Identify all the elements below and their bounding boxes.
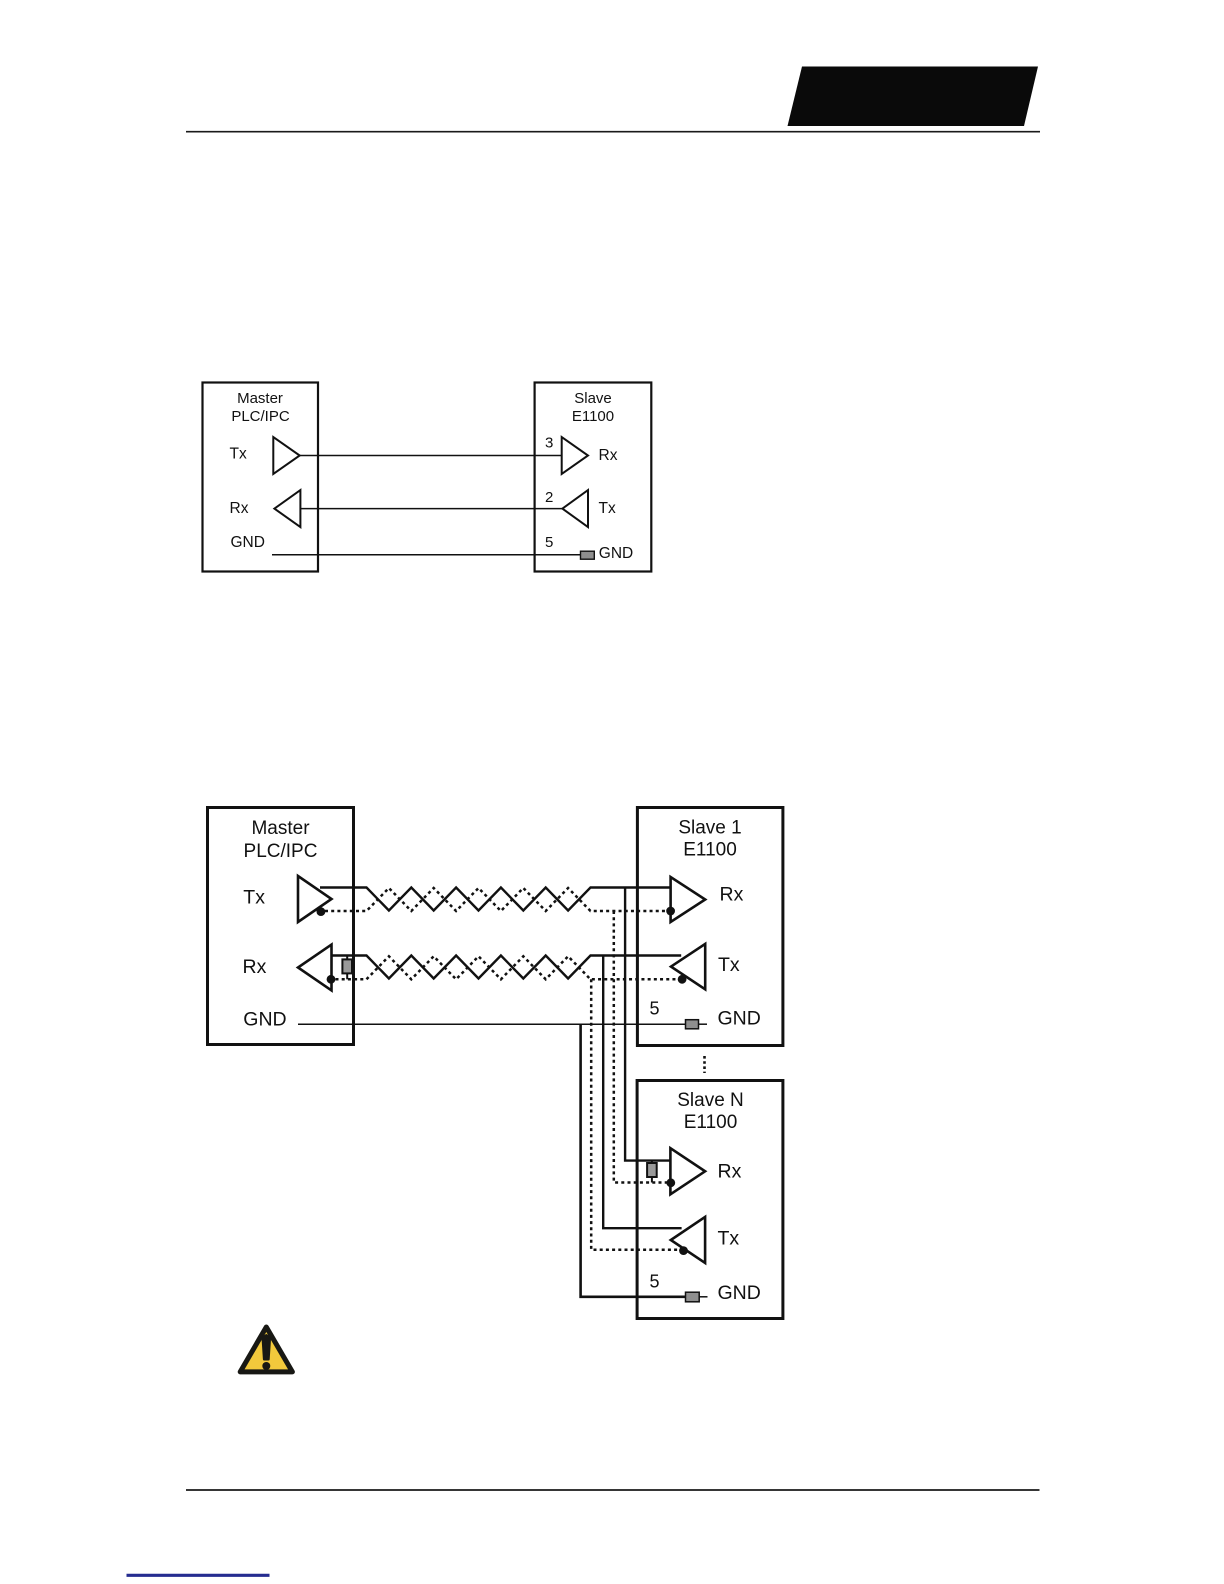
junction dot master Rx — [327, 975, 336, 984]
wire master Tx to slave Rx — [300, 455, 562, 457]
wire twisted pair solid Rx — [332, 956, 682, 979]
buffer master Rx — [298, 945, 332, 991]
box master PLC/IPC — [208, 808, 354, 1045]
wire GND pad stub slave1 — [699, 1023, 708, 1025]
svg-text:Rx: Rx — [599, 447, 618, 464]
ground pad slaveN — [686, 1292, 700, 1302]
svg-text:Slave: Slave — [574, 390, 612, 407]
wire GND master to slave — [272, 554, 581, 556]
buffer master Tx — [298, 876, 332, 922]
svg-text:5: 5 — [650, 1272, 660, 1292]
continuation dots — [703, 1056, 706, 1073]
junction dot slave1 Rx — [666, 907, 675, 916]
box slave1 E1100 — [637, 808, 783, 1046]
svg-text:E1100: E1100 — [684, 1112, 738, 1133]
svg-text:Tx: Tx — [718, 954, 740, 976]
termination resistor master Rx — [346, 956, 348, 980]
box slave E1100 — [535, 383, 652, 572]
svg-text:Master: Master — [237, 390, 283, 407]
wire twisted pair dotted Tx — [325, 888, 671, 911]
wire GND pad stub slaveN — [699, 1296, 707, 1298]
wire GND master to slave1 — [298, 1023, 686, 1025]
junction dot slave1 Tx — [678, 975, 687, 984]
svg-text:Rx: Rx — [230, 500, 249, 517]
wire dotted drop to slaveN Rx — [614, 911, 667, 1183]
svg-text:PLC/IPC: PLC/IPC — [244, 841, 318, 862]
junction dot slaveN Tx — [679, 1246, 688, 1255]
footer rule — [186, 1489, 1040, 1491]
wire slave Tx to master Rx — [300, 508, 562, 510]
svg-text:GND: GND — [231, 534, 265, 551]
box slaveN E1100 — [637, 1081, 783, 1319]
svg-text:3: 3 — [545, 435, 553, 452]
header logo parallelogram — [788, 67, 1039, 127]
buffer slaveN Tx — [671, 1217, 705, 1263]
buffer slave1 Rx — [671, 877, 706, 922]
svg-text:GND: GND — [243, 1008, 286, 1030]
svg-text:GND: GND — [718, 1008, 761, 1030]
box master PLC/IPC — [203, 383, 319, 572]
svg-text:E1100: E1100 — [572, 408, 614, 425]
wire twisted pair solid Tx — [320, 888, 671, 911]
svg-text:Rx: Rx — [720, 884, 744, 906]
svg-text:PLC/IPC: PLC/IPC — [231, 408, 290, 425]
buffer slaveN Rx — [670, 1148, 705, 1194]
buffer slave1 Tx — [671, 944, 705, 989]
buffer master Tx — [273, 437, 299, 474]
header rule — [186, 131, 1040, 133]
warning icon — [240, 1327, 292, 1372]
wire solid drop to slaveN Rx — [625, 888, 670, 1161]
svg-text:2: 2 — [545, 489, 553, 506]
buffer master Rx — [274, 490, 300, 527]
svg-text:E1100: E1100 — [683, 840, 737, 861]
ground pad slave — [581, 551, 595, 559]
svg-text:Slave 1: Slave 1 — [678, 818, 741, 839]
wire twisted pair dotted Rx — [336, 956, 683, 979]
wire GND drop to slaveN — [581, 1024, 686, 1297]
svg-text:Slave N: Slave N — [677, 1090, 744, 1111]
svg-text:5: 5 — [650, 999, 660, 1019]
svg-text:Rx: Rx — [243, 956, 267, 978]
svg-text:5: 5 — [545, 534, 553, 551]
wire solid drop to slaveN Tx — [603, 956, 681, 1229]
termination resistor slaveN Rx — [651, 1161, 653, 1183]
svg-text:GND: GND — [599, 545, 633, 562]
svg-text:Tx: Tx — [230, 446, 247, 463]
ground pad slave1 — [686, 1020, 699, 1029]
svg-text:Tx: Tx — [718, 1228, 740, 1250]
svg-text:Rx: Rx — [718, 1160, 742, 1182]
svg-text:Tx: Tx — [599, 500, 616, 517]
footer blue mark — [127, 1574, 270, 1577]
svg-text:Master: Master — [251, 818, 310, 839]
wire dotted drop to slaveN Tx — [591, 979, 683, 1250]
junction dot slaveN Rx — [666, 1178, 675, 1187]
junction dot master Tx — [317, 907, 326, 916]
svg-text:GND: GND — [718, 1282, 761, 1304]
buffer slave Tx — [562, 490, 588, 527]
buffer slave Rx — [562, 437, 588, 474]
svg-text:Tx: Tx — [243, 887, 265, 909]
